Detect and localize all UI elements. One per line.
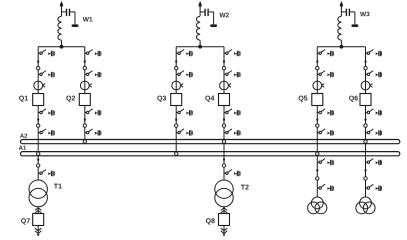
switchgear unit Q7: [33, 214, 44, 226]
isolating point, machine bay 6: [364, 177, 367, 180]
coupling capacitor with earth of feeder W2: [200, 9, 217, 27]
label T1: [54, 184, 62, 189]
wire bay Q1 column: [37, 47, 39, 181]
isolating point of bay Q5: [316, 67, 319, 70]
bus disconnector of bay Q3: [176, 129, 193, 136]
isolating point (lower) of bay Q5: [316, 124, 319, 127]
node bay Q6 to busbar A2: [364, 140, 367, 143]
disconnector at machine, bay 6: [366, 184, 383, 191]
junction tick of bay Q2: [84, 61, 86, 63]
disconnector, T2 bay: [224, 170, 241, 177]
label Q6: [349, 96, 358, 102]
label W1: [83, 17, 93, 21]
bus disconnector of bay Q6: [366, 129, 383, 136]
disconnector (second) of bay Q1: [38, 71, 55, 78]
disconnector (upper) of bay Q2: [85, 50, 102, 57]
junction tick (lower) of bay Q2: [84, 119, 86, 121]
junction tick below busbar, T2 bay: [223, 159, 225, 161]
bus disconnector of bay Q2: [85, 129, 102, 136]
current transformer of bay Q2: [80, 81, 91, 90]
coupling capacitor with earth of feeder W3: [341, 9, 358, 27]
isolating point of bay Q1: [37, 67, 40, 70]
reactor coil of feeder W3: [338, 5, 342, 47]
disconnector (below breaker) of bay Q5: [317, 109, 334, 116]
label Q2: [66, 96, 75, 102]
bus disconnector of bay Q5: [317, 129, 334, 136]
isolating point, T2 bay: [222, 164, 225, 167]
plug-in contact arrows above Q7: [35, 208, 41, 213]
junction tick of bay Q1: [37, 61, 39, 63]
junction node of feeder W1: [60, 45, 64, 49]
switchgear unit Q8: [219, 214, 230, 226]
current transformer of bay Q4: [220, 81, 231, 90]
wire bay Q6 column: [365, 47, 367, 198]
disconnector below busbar, machine bay 5: [317, 159, 334, 166]
bus disconnector of bay Q1: [38, 129, 55, 136]
label Q7: [21, 218, 30, 224]
label Q5: [299, 96, 308, 102]
circuit breaker Q3: [171, 94, 182, 106]
disconnector (second) of bay Q3: [176, 71, 193, 78]
junction tick (lower) of bay Q4: [223, 119, 225, 121]
isolating point, machine bay 5: [316, 177, 319, 180]
transformer T1: [29, 180, 47, 207]
label T2: [241, 185, 249, 190]
circuit breaker Q5: [312, 94, 323, 106]
wire feeder W2 branch to bays: [176, 46, 224, 48]
label W3: [360, 12, 370, 17]
outgoing feeder arrow below Q8: [221, 226, 227, 237]
node bay Q3 to busbar A1: [175, 152, 178, 155]
junction tick (lower) of bay Q6: [365, 119, 367, 121]
wire T2 to switchgear Q8: [223, 207, 225, 214]
current transformer of bay Q5: [313, 81, 324, 90]
junction tick (lower) of bay Q1: [37, 119, 39, 121]
disconnector (second) of bay Q5: [317, 71, 334, 78]
disconnector (upper) of bay Q6: [366, 50, 383, 57]
junction tick (lower) of bay Q5: [316, 119, 318, 121]
junction tick (lower) of bay Q3: [175, 119, 177, 121]
node bay Q4 to busbar A2: [222, 140, 225, 143]
disconnector (second) of bay Q2: [85, 71, 102, 78]
label W2: [219, 13, 228, 18]
bus disconnector of bay Q4: [224, 129, 241, 136]
wire bay Q4 column: [223, 47, 225, 181]
junction tick of bay Q5: [316, 61, 318, 63]
current transformer of bay Q1: [34, 81, 45, 90]
isolating point of bay Q2: [83, 67, 86, 70]
junction tick, machine bay 6: [365, 169, 367, 171]
disconnector at machine, bay 5: [317, 184, 334, 191]
junction tick, machine bay 5: [316, 169, 318, 171]
outgoing feeder arrow below Q7: [35, 226, 41, 237]
transformer T2: [215, 180, 233, 207]
disconnector (upper) of bay Q3: [176, 50, 193, 57]
disconnector (below breaker) of bay Q1: [38, 109, 55, 116]
disconnector (second) of bay Q6: [366, 71, 383, 78]
disconnector (below breaker) of bay Q3: [176, 109, 193, 116]
disconnector (upper) of bay Q1: [38, 50, 55, 57]
isolating point of bay Q4: [222, 67, 225, 70]
reactor coil of feeder W2: [197, 5, 201, 47]
junction tick below busbar, T1 bay: [37, 159, 39, 161]
label Q8: [206, 218, 215, 224]
isolating point (lower) of bay Q4: [222, 124, 225, 127]
disconnector (below breaker) of bay Q4: [224, 109, 241, 116]
current transformer of bay Q3: [172, 81, 183, 90]
isolating point (lower) of bay Q2: [83, 124, 86, 127]
wire bay Q5 column: [316, 47, 318, 198]
wire feeder W1 branch to bays: [38, 46, 85, 48]
label A1: [19, 146, 26, 150]
junction node of feeder W2: [198, 45, 202, 49]
circuit breaker Q1: [33, 94, 44, 106]
plug-in contact arrows above Q8: [221, 208, 227, 213]
node bay Q2 to busbar A2: [83, 140, 86, 143]
disconnector (upper) of bay Q4: [224, 50, 241, 57]
node bay Q1 to busbar A1: [37, 152, 40, 155]
incoming overhead line W2: arrow terminal: [198, 1, 202, 8]
disconnector (upper) of bay Q5: [317, 50, 334, 57]
wire bay Q2 column: [84, 47, 86, 143]
wire T1 to switchgear Q7: [37, 207, 39, 214]
disconnector, T1 bay: [38, 170, 55, 177]
circuit breaker Q2: [79, 94, 90, 106]
wire feeder W3 branch to bays: [317, 46, 365, 48]
incoming overhead line W3: arrow terminal: [340, 1, 344, 8]
circuit breaker Q6: [360, 94, 371, 106]
junction tick of bay Q6: [365, 61, 367, 63]
isolating point (lower) of bay Q3: [175, 124, 178, 127]
label Q4: [205, 96, 214, 102]
junction tick of bay Q3: [175, 61, 177, 63]
isolating point of bay Q3: [175, 67, 178, 70]
busbar A2: [21, 140, 400, 144]
disconnector (below breaker) of bay Q6: [366, 109, 383, 116]
junction node of feeder W3: [340, 45, 344, 49]
label Q1: [19, 96, 28, 102]
isolating point, T1 bay: [37, 164, 40, 167]
disconnector (below breaker) of bay Q2: [85, 109, 102, 116]
circuit breaker Q4: [219, 94, 230, 106]
busbar A1: [21, 152, 400, 156]
label A2: [20, 134, 27, 138]
current transformer of bay Q6: [361, 81, 372, 90]
three-winding machine symbol, bay 5: [308, 197, 327, 214]
incoming overhead line W1: arrow terminal: [60, 1, 64, 8]
isolating point (lower) of bay Q1: [37, 124, 40, 127]
reactor coil of feeder W1: [58, 5, 62, 47]
disconnector (second) of bay Q4: [224, 71, 241, 78]
isolating point (lower) of bay Q6: [364, 124, 367, 127]
three-winding machine symbol, bay 6: [356, 197, 375, 214]
junction tick of bay Q4: [223, 61, 225, 63]
disconnector below busbar, machine bay 6: [366, 159, 383, 166]
node bay Q5 to busbar A1: [316, 152, 319, 155]
label Q3: [157, 96, 166, 102]
isolating point of bay Q6: [364, 67, 367, 70]
coupling capacitor with earth of feeder W1: [62, 9, 79, 27]
wire bay Q3 column: [175, 47, 177, 155]
